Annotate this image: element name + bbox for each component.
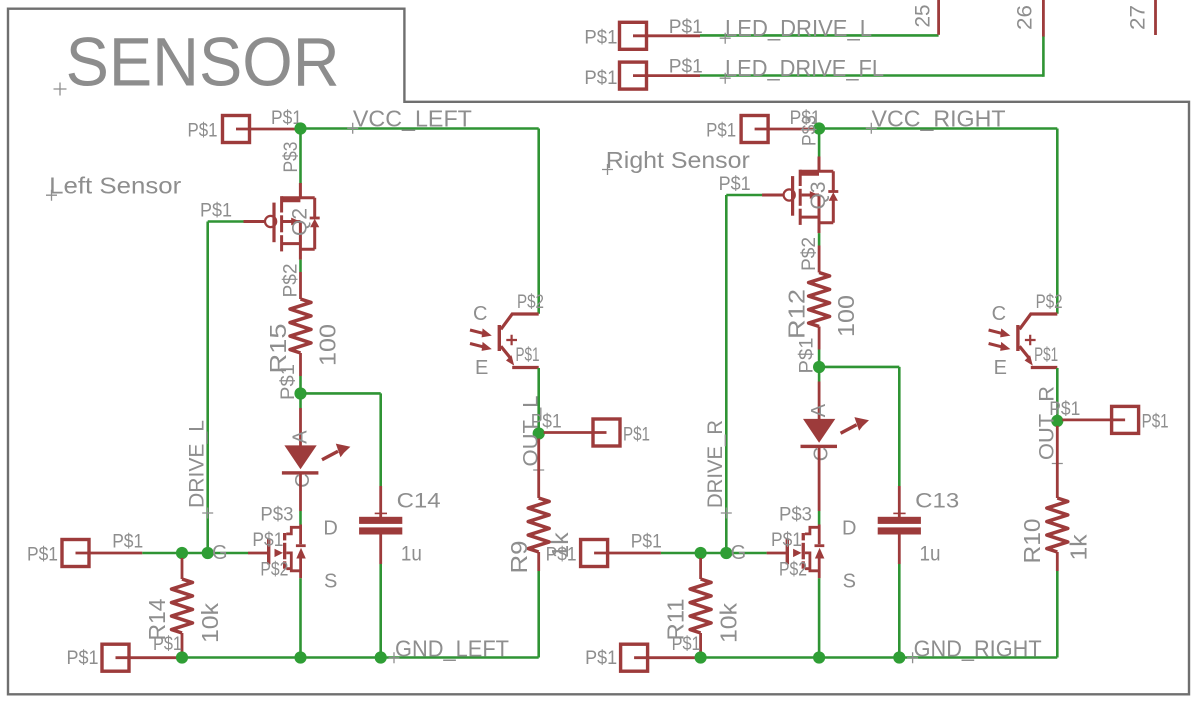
Right Sensor origin cross — [602, 164, 613, 175]
pin wire GND pad — [116, 656, 178, 659]
svg-text:10k: 10k — [716, 602, 742, 643]
wire net LED_DRIVE_L — [700, 34, 939, 37]
wire R to LED junction — [299, 376, 302, 389]
resistor lead — [818, 246, 821, 273]
capacitor C14 — [359, 513, 402, 534]
wire junction to LED — [818, 372, 821, 382]
junction node R divider — [176, 547, 188, 559]
gate pin wire — [244, 220, 266, 223]
wire Q drain to R — [299, 260, 302, 272]
svg-text:1u: 1u — [401, 543, 422, 566]
VCC_LEFT origin cross — [347, 123, 358, 134]
svg-text:P$1: P$1 — [719, 174, 751, 195]
resistor lead — [1056, 552, 1059, 571]
junction node OUT_L — [533, 427, 545, 439]
svg-text:GND_RIGHT: GND_RIGHT — [914, 635, 1042, 661]
DRIVE_R origin cross — [721, 508, 732, 519]
wire net VCC_LEFT — [306, 127, 539, 130]
wire net OUT_L — [537, 368, 540, 434]
wire net DRIVE_L vertical — [206, 222, 209, 554]
capacitor lead — [379, 486, 382, 517]
svg-text:E: E — [475, 357, 488, 379]
LED anode lead — [299, 408, 302, 446]
pin wire DRIVE pad — [76, 552, 143, 555]
pad P$1 (DRIVE_L) — [62, 540, 89, 567]
resistor lead — [1056, 426, 1059, 498]
resistor lead — [537, 552, 540, 571]
svg-text:Q2: Q2 — [289, 208, 312, 236]
svg-text:P$2: P$2 — [1036, 292, 1063, 313]
wire capacitor to GND — [898, 564, 901, 652]
junction node GND capacitor — [893, 651, 905, 663]
svg-text:E: E — [994, 357, 1007, 379]
wire net GND_RIGHT from R10 — [1056, 571, 1059, 658]
svg-text:P$1: P$1 — [67, 648, 99, 669]
svg-text:P$2: P$2 — [517, 292, 544, 313]
svg-text:P$2: P$2 — [281, 264, 302, 298]
svg-text:27: 27 — [1127, 5, 1150, 30]
svg-text:G: G — [212, 542, 228, 564]
junction node DRIVE_R G — [720, 547, 732, 559]
resistor R12 — [809, 273, 830, 327]
svg-text:P$1: P$1 — [584, 68, 617, 89]
wire net GND_LEFT from R9 — [537, 571, 540, 658]
pad P$1 (GND_RIGHT) — [621, 644, 648, 671]
DRIVE_L origin cross — [202, 508, 213, 519]
junction node GND pad — [695, 651, 707, 663]
svg-text:LED_DRIVE_L: LED_DRIVE_L — [725, 15, 872, 41]
wire net DRIVE_L horizontal — [142, 552, 248, 555]
wire Q source to GND — [299, 578, 302, 652]
resistor lead — [699, 558, 702, 579]
svg-text:P$1: P$1 — [669, 57, 703, 78]
svg-text:P$1: P$1 — [546, 545, 577, 566]
pin wire VCC pad — [755, 128, 816, 131]
svg-text:26: 26 — [1014, 5, 1037, 30]
pad P$1 (DRIVE_R) — [581, 540, 608, 567]
capacitor lead — [379, 535, 382, 565]
wire net DRIVE_R horizontal — [661, 552, 767, 555]
pin wire LED_DRIVE_FL pad — [633, 74, 700, 77]
svg-text:R10: R10 — [1019, 519, 1045, 564]
svg-text:P$3: P$3 — [800, 115, 821, 146]
svg-text:10k: 10k — [197, 602, 223, 643]
pin wire VCC pad — [236, 128, 297, 131]
pin wire LED_DRIVE_L pad — [633, 34, 700, 37]
junction node LED anode — [813, 361, 825, 373]
pin wire OUT pad — [544, 431, 607, 434]
wire net GND_LEFT — [182, 656, 539, 659]
svg-text:C13: C13 — [915, 490, 959, 513]
wire capacitor top vertical — [898, 367, 901, 486]
wire net OUT_R — [1056, 368, 1059, 421]
wire net VCC_RIGHT — [824, 127, 1057, 130]
svg-text:Left Sensor: Left Sensor — [49, 173, 181, 199]
pad P$1 (GND_LEFT) — [102, 644, 129, 671]
svg-text:1k: 1k — [1066, 534, 1092, 561]
resistor R11 — [690, 579, 711, 633]
svg-text:A: A — [808, 403, 830, 417]
GND_RIGHT origin cross — [907, 652, 918, 663]
P-MOSFET Q2 — [244, 183, 320, 260]
pin wire OUT pad — [1062, 418, 1125, 421]
svg-text:P$1: P$1 — [1034, 345, 1058, 366]
svg-text:P$3: P$3 — [260, 505, 293, 526]
svg-text:LED_DRIVE_FL: LED_DRIVE_FL — [725, 55, 884, 81]
junction node GND Q source — [294, 651, 306, 663]
svg-text:P$1: P$1 — [771, 530, 802, 551]
LED DR — [801, 417, 870, 448]
svg-text:R12: R12 — [783, 289, 809, 339]
svg-text:Right Sensor: Right Sensor — [606, 147, 750, 173]
resistor lead — [699, 633, 702, 652]
svg-text:GND_LEFT: GND_LEFT — [395, 635, 509, 661]
wire R to LED junction — [818, 350, 821, 363]
svg-text:P$1: P$1 — [584, 28, 617, 49]
wire net LED_DRIVE_FL vertical — [1042, 36, 1045, 77]
pin 27 stub — [1154, 0, 1157, 35]
svg-text:1u: 1u — [920, 543, 941, 566]
gate pin wire — [762, 194, 784, 197]
wire net GND_RIGHT — [701, 656, 1058, 659]
resistor lead — [537, 439, 540, 499]
phototransistor TL — [470, 314, 539, 368]
N-MOSFET Q4 — [767, 525, 825, 579]
svg-text:SENSOR: SENSOR — [66, 24, 340, 101]
resistor lead — [299, 353, 302, 376]
svg-text:S: S — [843, 570, 856, 592]
wire net LED_DRIVE_FL — [700, 74, 1043, 77]
resistor lead — [181, 633, 184, 652]
pad P$1 (OUT_R) — [1112, 406, 1139, 433]
resistor R14 — [172, 579, 193, 633]
svg-text:VCC_LEFT: VCC_LEFT — [353, 106, 472, 132]
pad P$1 (LED_DRIVE_FL) — [620, 62, 647, 89]
junction node OUT_R — [1051, 415, 1063, 427]
junction node R divider — [695, 547, 707, 559]
junction node DRIVE_L G — [202, 547, 214, 559]
resistor lead — [818, 327, 821, 350]
svg-text:D: D — [323, 517, 337, 539]
title origin cross — [54, 83, 67, 96]
svg-text:P$1: P$1 — [672, 634, 701, 655]
junction node LED anode — [294, 387, 306, 399]
LED cathode lead — [818, 448, 821, 511]
junction node GND Q source — [813, 651, 825, 663]
svg-text:P$2: P$2 — [779, 560, 807, 581]
resistor lead — [181, 558, 184, 579]
svg-text:P$1: P$1 — [200, 201, 232, 222]
capacitor lead — [898, 535, 901, 565]
svg-text:R9: R9 — [506, 541, 532, 574]
pad P$1 (OUT_L) — [593, 419, 620, 446]
svg-text:100: 100 — [833, 295, 859, 337]
svg-text:25: 25 — [912, 5, 935, 28]
svg-text:S: S — [324, 570, 337, 592]
VCC_RIGHT origin cross — [866, 123, 877, 134]
svg-text:P$1: P$1 — [188, 120, 218, 141]
wire junction to capacitor — [824, 366, 899, 369]
pad P$1 (VCC R) — [741, 116, 768, 143]
svg-text:C: C — [292, 473, 314, 487]
pad P$1 (LED_DRIVE_L) — [620, 22, 647, 49]
wire capacitor to GND — [379, 564, 382, 652]
wire junction to capacitor — [306, 392, 381, 395]
svg-text:100: 100 — [314, 324, 340, 366]
svg-text:VCC_RIGHT: VCC_RIGHT — [872, 106, 1006, 132]
pin wire DRIVE pad — [594, 552, 661, 555]
capacitor C13 — [878, 513, 921, 534]
svg-text:P$3: P$3 — [281, 142, 302, 173]
LED DL — [282, 444, 351, 475]
LED_DRIVE_FL origin cross — [720, 73, 731, 84]
svg-text:C14: C14 — [397, 490, 441, 513]
resistor R15 — [290, 299, 311, 353]
LED anode lead — [818, 382, 821, 420]
svg-text:Q3: Q3 — [807, 182, 830, 210]
svg-text:P$3: P$3 — [779, 505, 812, 526]
wire net DRIVE_R gate segment — [726, 194, 762, 197]
wire net DRIVE_L gate segment — [208, 220, 244, 223]
wire Q drain to R — [818, 233, 821, 245]
svg-text:C: C — [473, 303, 487, 325]
svg-text:P$1: P$1 — [585, 648, 617, 669]
OUT_R origin cross — [1052, 458, 1063, 469]
svg-text:P$1: P$1 — [112, 531, 143, 552]
phototransistor TR — [989, 314, 1058, 368]
svg-text:P$1: P$1 — [27, 545, 58, 566]
resistor R10 — [1047, 498, 1068, 552]
svg-text:DRIVE_L: DRIVE_L — [186, 420, 209, 508]
svg-text:G: G — [731, 542, 747, 564]
svg-text:D: D — [842, 517, 856, 539]
Left Sensor origin cross — [46, 190, 57, 201]
junction node GND pad — [176, 651, 188, 663]
junction node VCC_LEFT — [294, 122, 306, 134]
P-MOSFET Q3 — [762, 157, 838, 234]
svg-text:P$1: P$1 — [1142, 412, 1169, 433]
svg-text:P$2: P$2 — [260, 560, 288, 581]
wire capacitor top vertical — [379, 393, 382, 486]
wire Q source to GND — [818, 578, 821, 652]
LED cathode lead — [299, 474, 302, 511]
svg-text:P$1: P$1 — [706, 120, 736, 141]
wire net DRIVE_R vertical — [725, 195, 728, 553]
wire junction to LED — [299, 399, 302, 409]
svg-text:C: C — [810, 447, 832, 461]
svg-text:OUT_R: OUT_R — [1036, 386, 1059, 460]
junction node VCC_RIGHT — [813, 122, 825, 134]
wire VCC to Q source — [299, 134, 302, 184]
OUT_L origin cross — [533, 465, 544, 476]
svg-text:P$1: P$1 — [623, 424, 650, 445]
wire LED to Q drain — [299, 511, 302, 525]
wire net VCC_RIGHT vertical — [1056, 129, 1059, 314]
GND_LEFT origin cross — [389, 652, 400, 663]
svg-text:P$1: P$1 — [669, 17, 703, 38]
capacitor lead — [898, 486, 901, 517]
pin 25 stub — [937, 0, 940, 35]
svg-text:C: C — [992, 303, 1006, 325]
N-MOSFET Q1 — [248, 525, 306, 579]
pin 26 stub — [1042, 0, 1045, 37]
wire LED to Q drain — [818, 511, 821, 525]
pin wire GND pad — [634, 656, 696, 659]
svg-text:A: A — [289, 430, 311, 444]
svg-text:P$2: P$2 — [799, 237, 820, 271]
junction node GND capacitor — [375, 651, 387, 663]
LED_DRIVE_L origin cross — [720, 33, 731, 44]
wire VCC to Q source — [818, 134, 821, 157]
resistor lead — [299, 272, 302, 299]
svg-text:P$1: P$1 — [631, 531, 662, 552]
svg-text:P$1: P$1 — [516, 345, 540, 366]
svg-text:P$1: P$1 — [252, 530, 283, 551]
wire net VCC_LEFT vertical — [537, 129, 540, 314]
svg-text:P$1: P$1 — [153, 634, 182, 655]
resistor R9 — [528, 498, 549, 552]
pad P$1 (VCC L) — [223, 116, 250, 143]
svg-text:DRIVE_R: DRIVE_R — [704, 420, 727, 508]
